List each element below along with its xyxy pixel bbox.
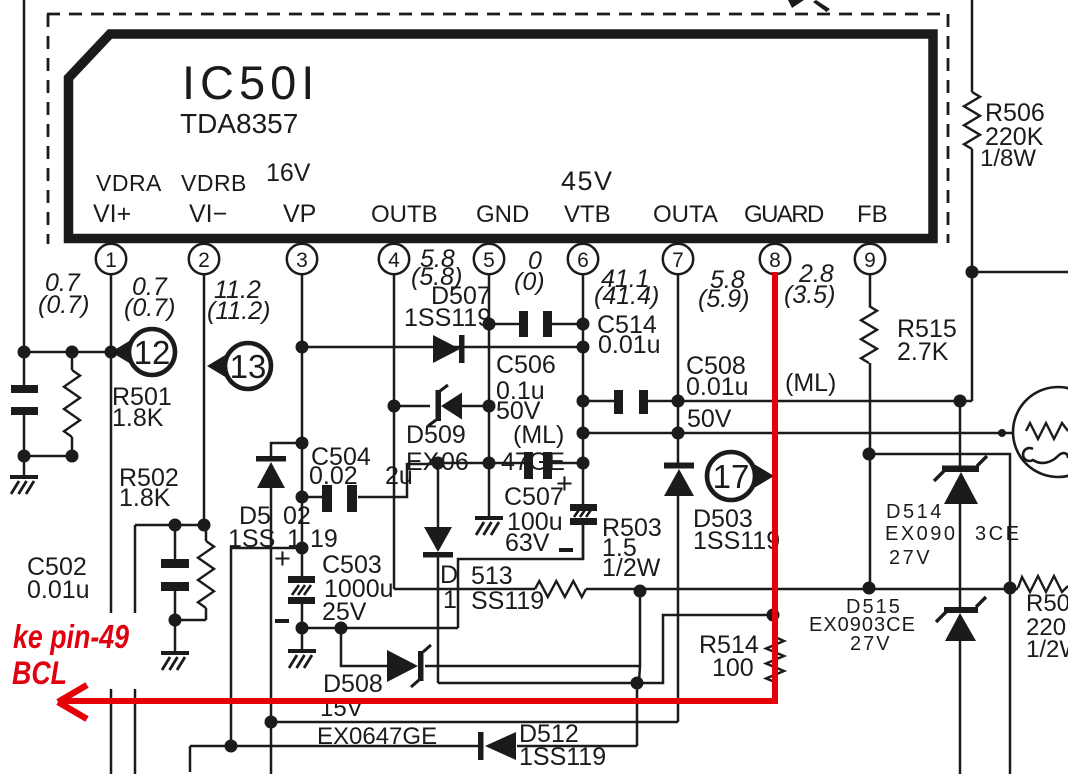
svg-text:D508: D508 <box>323 670 383 698</box>
label C508 <box>686 352 836 433</box>
svg-text:1/2W: 1/2W <box>1026 636 1068 663</box>
op-amp IC501 TDA8357 body <box>69 34 934 239</box>
node D512 row <box>225 740 238 753</box>
svg-text:(41.4): (41.4) <box>594 282 659 310</box>
pin 2 <box>189 244 219 274</box>
yoke internal resistor <box>1026 423 1068 439</box>
svg-text:VI+: VI+ <box>93 200 131 228</box>
svg-text:1SS: 1SS <box>228 525 275 553</box>
svg-text:16V: 16V <box>266 159 311 187</box>
zener diode D514 <box>934 456 987 504</box>
svg-text:D: D <box>440 561 458 589</box>
svg-text:4: 4 <box>388 249 400 272</box>
diode D512 1SS119 <box>478 732 516 760</box>
label C504 <box>309 443 413 490</box>
svg-text:27V: 27V <box>889 547 932 569</box>
label D507 <box>404 282 491 332</box>
capacitor C504 <box>322 485 357 512</box>
svg-text:25V: 25V <box>322 598 367 626</box>
wire D502 cathode column <box>270 488 273 774</box>
svg-text:9: 9 <box>864 249 876 272</box>
svg-text:0.02: 0.02 <box>309 462 358 490</box>
dashed enclosure left <box>47 14 50 244</box>
label D502 <box>228 502 338 553</box>
wire R515 bottom column <box>869 363 872 588</box>
svg-text:19: 19 <box>310 525 338 553</box>
ground below C503 <box>288 651 316 668</box>
label D514 <box>885 501 1021 569</box>
node C502 top <box>169 519 182 532</box>
resistor R515 <box>861 306 877 363</box>
wire D508 cathode to R503 row <box>425 591 640 666</box>
wire C506 row <box>438 462 524 465</box>
dashed enclosure top <box>47 13 948 16</box>
svg-text:EX090: EX090 <box>885 523 958 545</box>
svg-text:VTB: VTB <box>564 201 611 228</box>
svg-text:VDRB: VDRB <box>181 170 247 196</box>
svg-text:FB: FB <box>857 201 888 228</box>
label D512 <box>519 720 606 771</box>
wire R502 stubs <box>205 525 208 541</box>
pin 4 <box>379 244 409 274</box>
cropped arrow mark right at top edge <box>813 0 830 12</box>
svg-text:0.01u: 0.01u <box>686 373 749 401</box>
node 50V row <box>577 427 590 440</box>
svg-text:5: 5 <box>483 249 495 272</box>
wire R506 top <box>971 0 974 92</box>
capacitor C506 <box>524 452 552 479</box>
svg-text:513: 513 <box>471 562 513 590</box>
capacitor C514 <box>519 311 552 337</box>
voltage note pin8 <box>784 260 835 309</box>
svg-text:VI−: VI− <box>189 200 227 228</box>
node pin7 bottom row <box>265 716 278 729</box>
wire D514 to D515 <box>959 504 962 608</box>
resistor R502 <box>198 541 214 608</box>
wire D502 anode link <box>271 443 302 457</box>
voltage note pin2 <box>124 273 175 322</box>
zener diode D515 <box>936 597 986 641</box>
ground below C501 <box>10 477 38 494</box>
svg-text:17: 17 <box>713 458 750 495</box>
node pin3/C504 <box>296 491 309 504</box>
svg-text:2.7K: 2.7K <box>897 338 949 366</box>
svg-text:C506: C506 <box>496 351 556 379</box>
wire x135 column <box>134 525 137 613</box>
svg-text:(0): (0) <box>514 268 545 296</box>
wire x135 to pin2 column <box>135 524 204 527</box>
wire D512 row left drop <box>189 746 192 772</box>
svg-text:(ML): (ML) <box>513 421 564 449</box>
wire FB branch right <box>972 271 1068 274</box>
svg-text:TDA8357: TDA8357 <box>180 108 298 139</box>
wire pin7 bottom row <box>271 721 678 724</box>
capacitor C508 <box>614 390 648 414</box>
pin 6 <box>568 244 598 274</box>
ground below C502 R502 <box>161 653 189 670</box>
node R515 bottom <box>863 448 876 461</box>
node mid bottom <box>631 677 644 690</box>
label R503 <box>602 514 662 582</box>
label R514 <box>699 631 759 682</box>
wire R506 bottom column <box>971 149 974 401</box>
label C514 <box>597 311 661 359</box>
svg-text:50V: 50V <box>687 405 732 433</box>
svg-text:(0.7): (0.7) <box>124 294 175 322</box>
label C502 <box>27 553 90 604</box>
svg-text:(11.2): (11.2) <box>207 297 270 325</box>
svg-text:IC50I: IC50I <box>182 56 319 109</box>
label R515 <box>897 315 957 366</box>
node C502 bottom <box>169 614 182 627</box>
svg-text:SS119: SS119 <box>471 587 544 615</box>
node C503 minus <box>296 622 309 635</box>
pin 8 <box>760 244 790 274</box>
svg-text:D514: D514 <box>886 501 944 523</box>
node yoke entry <box>998 429 1006 437</box>
svg-text:7: 7 <box>672 249 684 272</box>
label C507 <box>504 468 573 557</box>
svg-text:1: 1 <box>105 249 117 272</box>
pin 1 <box>96 244 126 274</box>
yoke internal coil curl <box>1023 448 1068 463</box>
svg-text:2u: 2u <box>385 462 413 490</box>
svg-text:3CE: 3CE <box>975 523 1021 545</box>
wire pin1 column lower <box>110 689 113 774</box>
wire D512 riser <box>636 683 639 746</box>
svg-text:D509: D509 <box>406 421 466 449</box>
node D509 ends <box>388 400 401 413</box>
wire R502 bottom link <box>175 619 206 622</box>
diode D502 1SS119 <box>256 456 286 488</box>
node left rail / wire12 <box>18 346 31 359</box>
voltage note pin3 <box>207 276 270 325</box>
svg-text:1/2W: 1/2W <box>602 554 661 582</box>
svg-text:1.8K: 1.8K <box>119 484 171 512</box>
wire D512 row <box>190 745 478 748</box>
wire pin5 column <box>488 273 491 517</box>
resistor R503 <box>535 581 586 597</box>
electrolytic capacitor C503 <box>288 576 315 604</box>
resistor R501 <box>64 370 80 437</box>
pin 5 <box>474 244 504 274</box>
svg-text:VDRA: VDRA <box>96 170 162 196</box>
voltage note pin7 <box>698 266 749 313</box>
resistor R506 <box>964 92 980 149</box>
wire pin6 below C507 <box>582 524 585 559</box>
svg-text:GND: GND <box>476 201 529 228</box>
deflection yoke coil circle <box>1013 387 1068 477</box>
label D509 <box>406 421 565 476</box>
svg-text:EX0647GE: EX0647GE <box>317 723 437 750</box>
wire C508 row <box>583 400 614 403</box>
wire pin1 column <box>110 273 113 613</box>
node R503 row <box>634 585 647 598</box>
wire cap C501 stubs <box>23 352 26 386</box>
wire pin4 column <box>393 273 396 497</box>
node pin3/D507 <box>296 341 309 354</box>
wire mid bottom row <box>438 682 637 685</box>
svg-text:8: 8 <box>769 249 781 272</box>
svg-text:1.8K: 1.8K <box>112 404 164 432</box>
capacitor C502 <box>161 559 189 591</box>
wire R514 element stubs <box>774 615 777 637</box>
wire C502 stubs <box>174 525 177 560</box>
svg-text:(3.5): (3.5) <box>784 281 835 309</box>
svg-text:13: 13 <box>230 348 267 385</box>
label C506 <box>496 351 564 449</box>
wire yoke column bottom <box>1009 588 1012 774</box>
wire pin2 column <box>203 273 206 525</box>
pin 3 <box>287 244 317 274</box>
svg-text:1SS119: 1SS119 <box>404 304 491 332</box>
cropped arrow mark left at top edge <box>788 0 804 8</box>
svg-text:100: 100 <box>712 654 754 682</box>
svg-text:C507: C507 <box>504 483 564 511</box>
label R508 <box>1026 590 1068 663</box>
svg-text:3: 3 <box>296 249 308 272</box>
node R506 branch <box>966 266 979 279</box>
svg-text:6: 6 <box>577 249 589 272</box>
wire D515 bottom <box>959 641 962 774</box>
wire pin3 column below C503 <box>301 603 304 650</box>
svg-text:63V: 63V <box>505 529 550 557</box>
wire pin3 column <box>301 273 304 577</box>
svg-text:1SS119: 1SS119 <box>519 743 606 771</box>
svg-text:+: + <box>274 543 291 575</box>
wire C503 minus row <box>302 627 458 630</box>
svg-text:ke pin-49: ke pin-49 <box>13 618 130 655</box>
svg-text:R508: R508 <box>1026 590 1068 617</box>
red annotation path from pin8 <box>58 272 778 719</box>
svg-text:1SS119: 1SS119 <box>693 527 780 555</box>
label D513 <box>440 561 544 615</box>
pin 9 <box>855 244 885 274</box>
wire C504 row <box>302 496 322 499</box>
wire pin9 stub <box>869 274 872 306</box>
wire D509 row <box>394 405 430 408</box>
svg-text:OUTB: OUTB <box>371 201 438 228</box>
svg-text:(5.9): (5.9) <box>698 285 749 313</box>
diode D510 <box>423 527 453 558</box>
wire R514 feed <box>637 615 774 683</box>
wire D507 row <box>302 346 583 349</box>
svg-text:(ML): (ML) <box>785 369 836 397</box>
connector node 13 <box>207 343 271 389</box>
pin 7 <box>663 244 693 274</box>
wire C507 minus loop <box>458 524 583 628</box>
wire D508 branch <box>341 628 387 666</box>
svg-text:VP: VP <box>283 200 316 228</box>
svg-text:06: 06 <box>441 448 469 476</box>
svg-text:27V: 27V <box>850 633 892 655</box>
svg-text:0.01u: 0.01u <box>598 331 661 359</box>
resistor R508 <box>1018 576 1068 592</box>
svg-text:2: 2 <box>198 249 210 272</box>
voltage note pin1 <box>38 269 89 319</box>
zener diode D508 <box>387 645 431 687</box>
node pin3/D502 <box>296 437 309 450</box>
label D508 <box>320 670 383 722</box>
label C503 <box>274 543 394 626</box>
svg-text:1/8W: 1/8W <box>980 145 1036 172</box>
svg-text:BCL: BCL <box>12 655 67 691</box>
label R501 <box>112 383 172 432</box>
label R506 <box>980 99 1045 172</box>
wire pin6 column <box>582 273 585 504</box>
node C501 bottom <box>18 450 31 463</box>
svg-text:45V: 45V <box>561 166 614 196</box>
zener diode D509 <box>428 385 462 426</box>
wire left rail top <box>23 0 26 352</box>
svg-text:12: 12 <box>134 334 171 371</box>
node pin3/C503 plus <box>296 542 309 555</box>
dashed enclosure right <box>947 14 950 243</box>
wire R501 stubs <box>71 352 74 370</box>
svg-text:+: + <box>556 468 573 500</box>
voltage note pin6 <box>594 265 659 310</box>
label D515 <box>809 596 916 655</box>
node C514 right <box>577 318 590 331</box>
connector node 17 <box>707 452 774 500</box>
svg-text:OUTA: OUTA <box>653 201 718 228</box>
node C514 left <box>483 318 496 331</box>
node C508 row <box>577 395 590 408</box>
resistor R514 <box>766 637 784 682</box>
wire bottom of R501/C501 <box>24 455 72 458</box>
wire C503 plus branch <box>231 548 302 746</box>
voltage note pin5 <box>514 247 545 296</box>
wire pin7 column <box>677 273 680 463</box>
svg-text:GUARD: GUARD <box>744 201 824 228</box>
svg-text:1: 1 <box>443 586 457 614</box>
svg-text:(0.7): (0.7) <box>38 291 89 319</box>
wire R503 row <box>394 588 535 591</box>
wire left rail to pin1 <box>24 351 111 354</box>
diode D503 1SS119 <box>664 463 694 497</box>
ground below pin5 <box>475 518 503 535</box>
wire R515 row to yoke column <box>869 454 1010 588</box>
wire pin4 node down <box>393 497 396 589</box>
wire C504 node jog <box>394 464 438 497</box>
node C506 row <box>432 457 445 470</box>
wire 50V row to yoke <box>583 432 1014 435</box>
label D503 <box>693 505 780 555</box>
node R514 top <box>767 609 780 622</box>
wire C514 row <box>489 323 519 326</box>
wire pin7 column below D503 <box>677 496 680 722</box>
wire D510 hanger <box>437 463 440 527</box>
label R502 <box>119 464 179 512</box>
connector node 12 <box>111 329 175 375</box>
electrolytic capacitor C507 <box>570 504 597 525</box>
node D507 right <box>577 341 590 354</box>
voltage note pin4 <box>411 245 462 291</box>
svg-text:0.01u: 0.01u <box>27 576 90 604</box>
diode D507 1SS119 <box>433 335 465 363</box>
capacitor C501 <box>11 385 38 415</box>
wire R506 column jog to D514 <box>960 401 972 466</box>
